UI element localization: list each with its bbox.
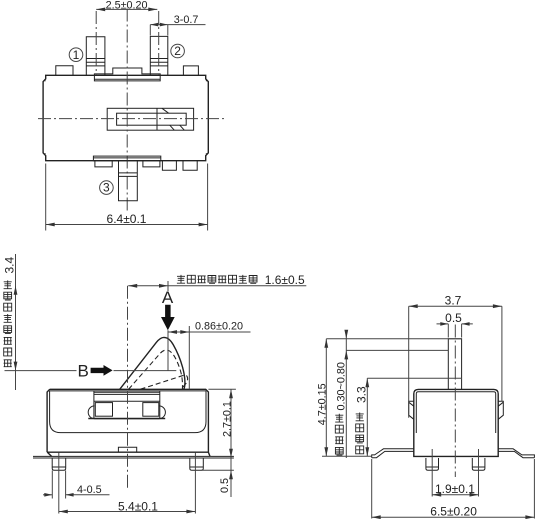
stem bend lines — [119, 173, 138, 177]
side leg left foot line — [426, 466, 439, 468]
lever dashed position swung — [141, 375, 188, 389]
side vertical centerline — [454, 325, 456, 478]
dim 1.9 extension lines — [432, 449, 478, 497]
leg center extensions 5.4 — [59, 453, 196, 514]
side leg right — [472, 458, 485, 470]
svg-text:3.4: 3.4 — [3, 256, 17, 273]
slider slot outer — [107, 108, 193, 130]
dim limit arrows — [365, 378, 369, 456]
svg-text:B: B — [78, 361, 89, 380]
arrow A solid — [161, 305, 175, 330]
horizontal centerline top view — [38, 118, 224, 120]
stem pin 3 — [119, 161, 138, 201]
knob diagonal bottom 2 — [180, 125, 185, 130]
side wing left upper — [372, 449, 414, 458]
dimension 3-0.7 arrows — [150, 23, 168, 27]
dim 0.5 stem line segments — [437, 323, 473, 325]
dim 4-0.5 left segment — [43, 494, 52, 496]
svg-text:2.5±0.20: 2.5±0.20 — [106, 0, 148, 11]
circled number 3 — [100, 181, 114, 195]
knob divider line — [156, 108, 158, 130]
dim limit vertical line — [366, 378, 368, 456]
dim 0.5 arrow up — [229, 470, 233, 479]
bottom tab left — [95, 161, 112, 167]
dim 4-0.5 underline — [66, 494, 110, 496]
dim vertical op position line — [128, 285, 306, 287]
front body outline — [47, 389, 210, 456]
side leg left — [426, 458, 439, 470]
dim 1.9 arrows — [432, 493, 478, 497]
dim 5.4 line — [59, 511, 196, 513]
dim horizontal op text (水平方向操作位置 3.4 vertical) — [3, 256, 17, 366]
side wing right lower — [498, 451, 534, 457]
top plate with raised center — [94, 68, 160, 81]
dim 2.7 top extension — [208, 388, 236, 390]
dim 2.7 arrows — [229, 389, 233, 458]
svg-text:5.4±0.1: 5.4±0.1 — [118, 499, 158, 513]
side wing right upper — [498, 449, 534, 458]
actuator block — [94, 391, 160, 419]
top-left bump — [56, 66, 73, 76]
circled number 2 — [171, 44, 185, 58]
svg-text:2: 2 — [174, 44, 181, 58]
vertical centerline top view — [126, 9, 128, 212]
B horizontal line right — [114, 370, 177, 372]
knob diagonal bottom 1 — [170, 125, 175, 130]
dim vertical op tick — [167, 281, 169, 291]
actuator block top band — [94, 392, 160, 401]
bottom bump 2 — [183, 161, 197, 170]
dimension 6.4±0.1 extension lines — [46, 164, 208, 231]
top-right bump — [183, 66, 198, 75]
dim 4-0.5 arrows — [44, 493, 73, 497]
dimension 6.4±0.1 arrows — [46, 223, 208, 227]
dim 5.4 arrows — [59, 510, 196, 514]
pin 1 terminal — [86, 37, 105, 76]
reference line limit — [367, 377, 462, 379]
dim vertical op arrows — [128, 284, 168, 288]
dim 1.9 line — [432, 494, 478, 496]
dim 0.5 stem arrows — [440, 322, 469, 326]
front leg right — [190, 458, 204, 470]
front leg right foot line — [190, 466, 204, 468]
dim 3.7 extension lines — [409, 306, 502, 418]
top plate inner line — [94, 78, 160, 80]
dimension 3-0.7 line and underline — [150, 24, 205, 26]
bottom plate — [93, 156, 160, 161]
reference line stem top — [326, 338, 462, 340]
dimension 3-0.7 extension lines — [150, 25, 168, 36]
side wing left lower — [372, 451, 414, 457]
side ear right — [498, 401, 503, 419]
dim horizontal op arrows — [14, 286, 18, 371]
dim 0.5 leg ext line — [201, 469, 234, 471]
B horizontal line left — [5, 370, 77, 372]
pin 1 bend lines — [86, 59, 105, 66]
dim 0.86 extension line — [188, 326, 190, 389]
dim limit text (极限行程 3.3 vertical) — [355, 386, 369, 454]
dim vertical op text (垂直方向操作位置 pseudo-glyphs) — [177, 275, 257, 283]
svg-text:0.5: 0.5 — [219, 478, 231, 493]
slot stadium — [88, 406, 165, 419]
dim travel vertical line — [345, 331, 347, 458]
bottom plate inner line — [93, 157, 160, 159]
svg-text:3-0.7: 3-0.7 — [174, 14, 199, 26]
lever solid outline — [120, 337, 185, 389]
dim travel text (通电行程 0.30~0.80 vertical) — [335, 362, 347, 455]
reference line travel — [346, 349, 448, 351]
knob diagonal top — [162, 108, 169, 113]
front leg left foot line — [52, 466, 65, 468]
side leg right foot line — [472, 466, 485, 468]
bottom center tab — [118, 447, 136, 452]
dim 4.7 arrows — [324, 339, 328, 457]
bottom tab right — [143, 161, 160, 167]
circled number 1 — [69, 48, 83, 62]
side ear left — [409, 401, 414, 419]
front leg left — [52, 458, 65, 470]
dimension 2.5±0.20 line — [96, 8, 157, 10]
svg-text:4-0.5: 4-0.5 — [77, 484, 102, 496]
dimension 6.4±0.1 line — [46, 224, 208, 226]
leg extension lines 4-0.5 — [52, 471, 65, 499]
dim 3.7 line — [409, 305, 502, 307]
dim travel arrows — [344, 330, 348, 360]
side body top inner line — [416, 392, 495, 433]
svg-text:4.7±0.15: 4.7±0.15 — [316, 383, 328, 425]
svg-text:0.86±0.20: 0.86±0.20 — [195, 320, 243, 332]
svg-text:6.5±0.20: 6.5±0.20 — [430, 505, 477, 519]
dim horizontal op vertical line — [15, 254, 17, 390]
dim 6.5 line — [372, 516, 535, 518]
lever dashed position pressed — [129, 350, 183, 389]
side body outline — [414, 389, 498, 456]
dim 3.7 arrows — [409, 304, 502, 308]
pin 2 centerline — [158, 11, 160, 75]
svg-text:2.7±0.1: 2.7±0.1 — [221, 401, 233, 437]
body outline top view — [43, 75, 208, 160]
svg-text:1.6±0.5: 1.6±0.5 — [265, 273, 305, 287]
svg-text:1: 1 — [73, 48, 80, 62]
pin 2 terminal — [150, 36, 168, 75]
dimension 2.5±0.20 arrows — [96, 7, 157, 11]
svg-text:3.3: 3.3 — [355, 386, 369, 403]
reference line seating — [322, 455, 372, 457]
dim 0.86 line — [168, 331, 251, 333]
slider slot inner knob — [117, 113, 187, 125]
side stem — [448, 339, 461, 390]
bracket line lower — [33, 457, 234, 459]
dim 6.5 arrows — [372, 515, 535, 519]
bracket line upper — [33, 455, 234, 457]
dim 0.5 stem extension lines — [448, 324, 461, 338]
svg-text:0.30~0.80: 0.30~0.80 — [336, 362, 348, 410]
dim 6.5 extension lines — [372, 459, 535, 519]
arrow B solid — [91, 365, 113, 376]
svg-text:0.5: 0.5 — [445, 311, 462, 325]
dim 0.86 arrows — [168, 330, 189, 334]
front body inner wall — [50, 391, 206, 433]
svg-text:A: A — [162, 288, 174, 307]
block window left — [95, 403, 112, 417]
arrow A stem line — [167, 330, 169, 370]
svg-text:3: 3 — [103, 181, 110, 195]
pin 1 centerline — [95, 11, 97, 75]
dim 2.7 vertical line — [230, 389, 232, 497]
front vertical centerline — [127, 286, 129, 488]
block bottom line — [88, 418, 165, 420]
svg-text:6.4±0.1: 6.4±0.1 — [107, 212, 147, 226]
dim 4.7 vertical line — [325, 339, 327, 457]
front body top inner line — [50, 390, 206, 392]
svg-text:1.9±0.1: 1.9±0.1 — [435, 482, 475, 496]
corner hook marks — [45, 79, 207, 155]
bottom bump 1 — [162, 161, 176, 170]
pin 2 bend lines — [150, 59, 168, 66]
block window right — [143, 403, 159, 417]
svg-text:3.7: 3.7 — [445, 294, 462, 308]
